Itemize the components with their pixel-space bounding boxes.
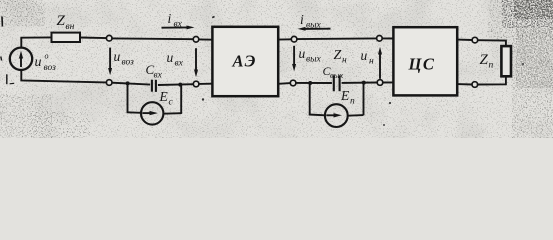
stray ink speck below Eп	[383, 124, 385, 126]
arrow inside source pointing up	[20, 55, 22, 68]
svg-text:воз: воз	[44, 63, 57, 73]
svg-text:u: u	[361, 48, 368, 63]
wire: AE output top	[278, 38, 291, 40]
capacitor Cвх plates	[151, 80, 153, 92]
svg-text:вых: вых	[306, 55, 322, 65]
node: input terminal top-left (open circle)	[106, 35, 112, 41]
arrow inside Ec pointing right	[142, 112, 152, 114]
svg-text:i: i	[300, 12, 304, 27]
svg-text:u: u	[35, 55, 42, 70]
node: load terminal top (open circle)	[472, 37, 478, 43]
wire: between output top terminals	[297, 37, 377, 40]
current arrow iвых (points left)	[304, 28, 331, 30]
junction dot Ec branch left	[126, 81, 130, 85]
wire: top rail to Zвн	[20, 36, 51, 38]
wire: terminal to AE box bottom	[199, 83, 213, 85]
node: AE input terminal bottom (open circle)	[193, 81, 199, 87]
svg-text:н: н	[369, 57, 374, 67]
voltage arrow uвых (down)	[293, 46, 295, 65]
node: AE input terminal top (open circle)	[193, 37, 199, 43]
paper mottling	[0, 0, 553, 138]
wire: Zвн to terminal circle	[80, 37, 106, 40]
wire: vertical from source top to top rail	[20, 38, 22, 48]
Ec loop right vertical	[180, 85, 182, 114]
wire: AE output bottom	[278, 82, 290, 85]
node: AE output terminal bottom (open circle)	[290, 80, 296, 86]
wire: Cвых to CS bottom terminal	[342, 82, 378, 84]
node: bottom-left terminal (open circle)	[106, 80, 112, 86]
left margin scan mark top	[1, 17, 3, 27]
source Eп (circle)	[325, 104, 348, 127]
svg-text:u: u	[114, 49, 121, 64]
svg-text:вх: вх	[154, 71, 163, 81]
junction dot Ec branch right	[178, 83, 182, 87]
paper background	[0, 0, 553, 138]
wire: CS output top	[457, 39, 472, 41]
Ec loop bottom right	[163, 112, 181, 115]
stray ink speck right of Zп	[522, 63, 524, 65]
wire: bottom rail to Cвых	[296, 82, 332, 84]
Ec loop bottom left	[127, 111, 142, 114]
voltage arrow uвоз (down)	[109, 48, 111, 69]
Ec loop left vertical	[127, 83, 129, 112]
wire: CS output bottom	[457, 83, 472, 85]
svg-text:o: o	[45, 52, 49, 61]
junction dot Eп branch left	[308, 81, 312, 85]
Eп loop bottom left	[309, 114, 325, 117]
left margin small dot mid	[0, 57, 3, 61]
right edge noise band	[512, 25, 553, 138]
bottom-left corner noise cluster	[0, 94, 52, 138]
svg-text:Z: Z	[480, 52, 489, 68]
load Zп (rectangle)	[501, 46, 511, 76]
current arrow iвх	[162, 26, 189, 28]
paper noise overall	[0, 0, 553, 138]
wire: source bottom to bottom rail	[21, 70, 106, 83]
wire: terminal to CS box bottom	[383, 81, 394, 83]
svg-text:п: п	[489, 61, 494, 71]
voltage arrow uвх (down)	[195, 48, 197, 70]
svg-text:u: u	[299, 46, 306, 61]
Eп loop left vertical	[309, 83, 311, 115]
Eп loop right vertical	[363, 83, 365, 115]
svg-text:вых: вых	[330, 70, 343, 80]
source Ec (circle)	[141, 102, 163, 124]
svg-text:вых: вых	[306, 21, 322, 31]
svg-text:i: i	[168, 11, 172, 26]
svg-text:Z: Z	[57, 13, 66, 29]
arrow inside Eп pointing right	[326, 114, 336, 116]
node: load terminal bottom (open circle)	[472, 82, 478, 88]
wire: Cвх to AE bottom terminal	[158, 83, 193, 86]
block AE (active element)	[212, 27, 278, 96]
node: AE output terminal top (open circle)	[291, 36, 297, 42]
svg-text:п: п	[350, 97, 355, 107]
resistor Zвн	[52, 33, 81, 42]
voltage arrow uн (up)	[379, 54, 381, 79]
wire: terminal to CS box	[382, 37, 393, 39]
wire: bottom rail to Cвх	[112, 83, 150, 85]
wire: terminal to AE box	[199, 38, 213, 40]
source uвоз (circle)	[10, 48, 32, 70]
top-left corner noise cluster	[0, 0, 45, 26]
svg-text:АЭ: АЭ	[232, 52, 258, 71]
Eп loop bottom right	[348, 114, 364, 117]
top-right corner noise cluster	[502, 0, 553, 28]
svg-text:вх: вх	[175, 59, 184, 69]
block CS (matching circuit)	[393, 27, 457, 95]
wire: load bottom corner	[478, 76, 506, 84]
svg-text:н: н	[342, 56, 347, 66]
junction dot Eп branch right	[362, 81, 366, 85]
svg-text:вн: вн	[66, 22, 75, 32]
wire: between top terminals	[112, 37, 193, 40]
svg-text:u: u	[167, 50, 174, 65]
node: CS input terminal top (open circle)	[377, 36, 383, 42]
node: CS input terminal bottom (open circle)	[377, 80, 383, 86]
svg-text:Z: Z	[334, 48, 342, 63]
svg-text:E: E	[340, 88, 350, 103]
svg-text:ЦС: ЦС	[408, 55, 436, 74]
svg-text:E: E	[159, 89, 169, 104]
left margin scan tick	[10, 82, 15, 85]
stray ink speck near CS bottom left	[389, 102, 391, 104]
svg-text:вх: вх	[174, 20, 183, 30]
wire: to load top corner	[478, 40, 506, 46]
svg-text:воз: воз	[122, 58, 135, 68]
capacitor Cвых plates	[333, 75, 335, 91]
left margin scan mark vertical	[6, 74, 8, 84]
stray ink speck below AE left	[202, 98, 204, 100]
stray ink speck above AE	[212, 16, 215, 19]
